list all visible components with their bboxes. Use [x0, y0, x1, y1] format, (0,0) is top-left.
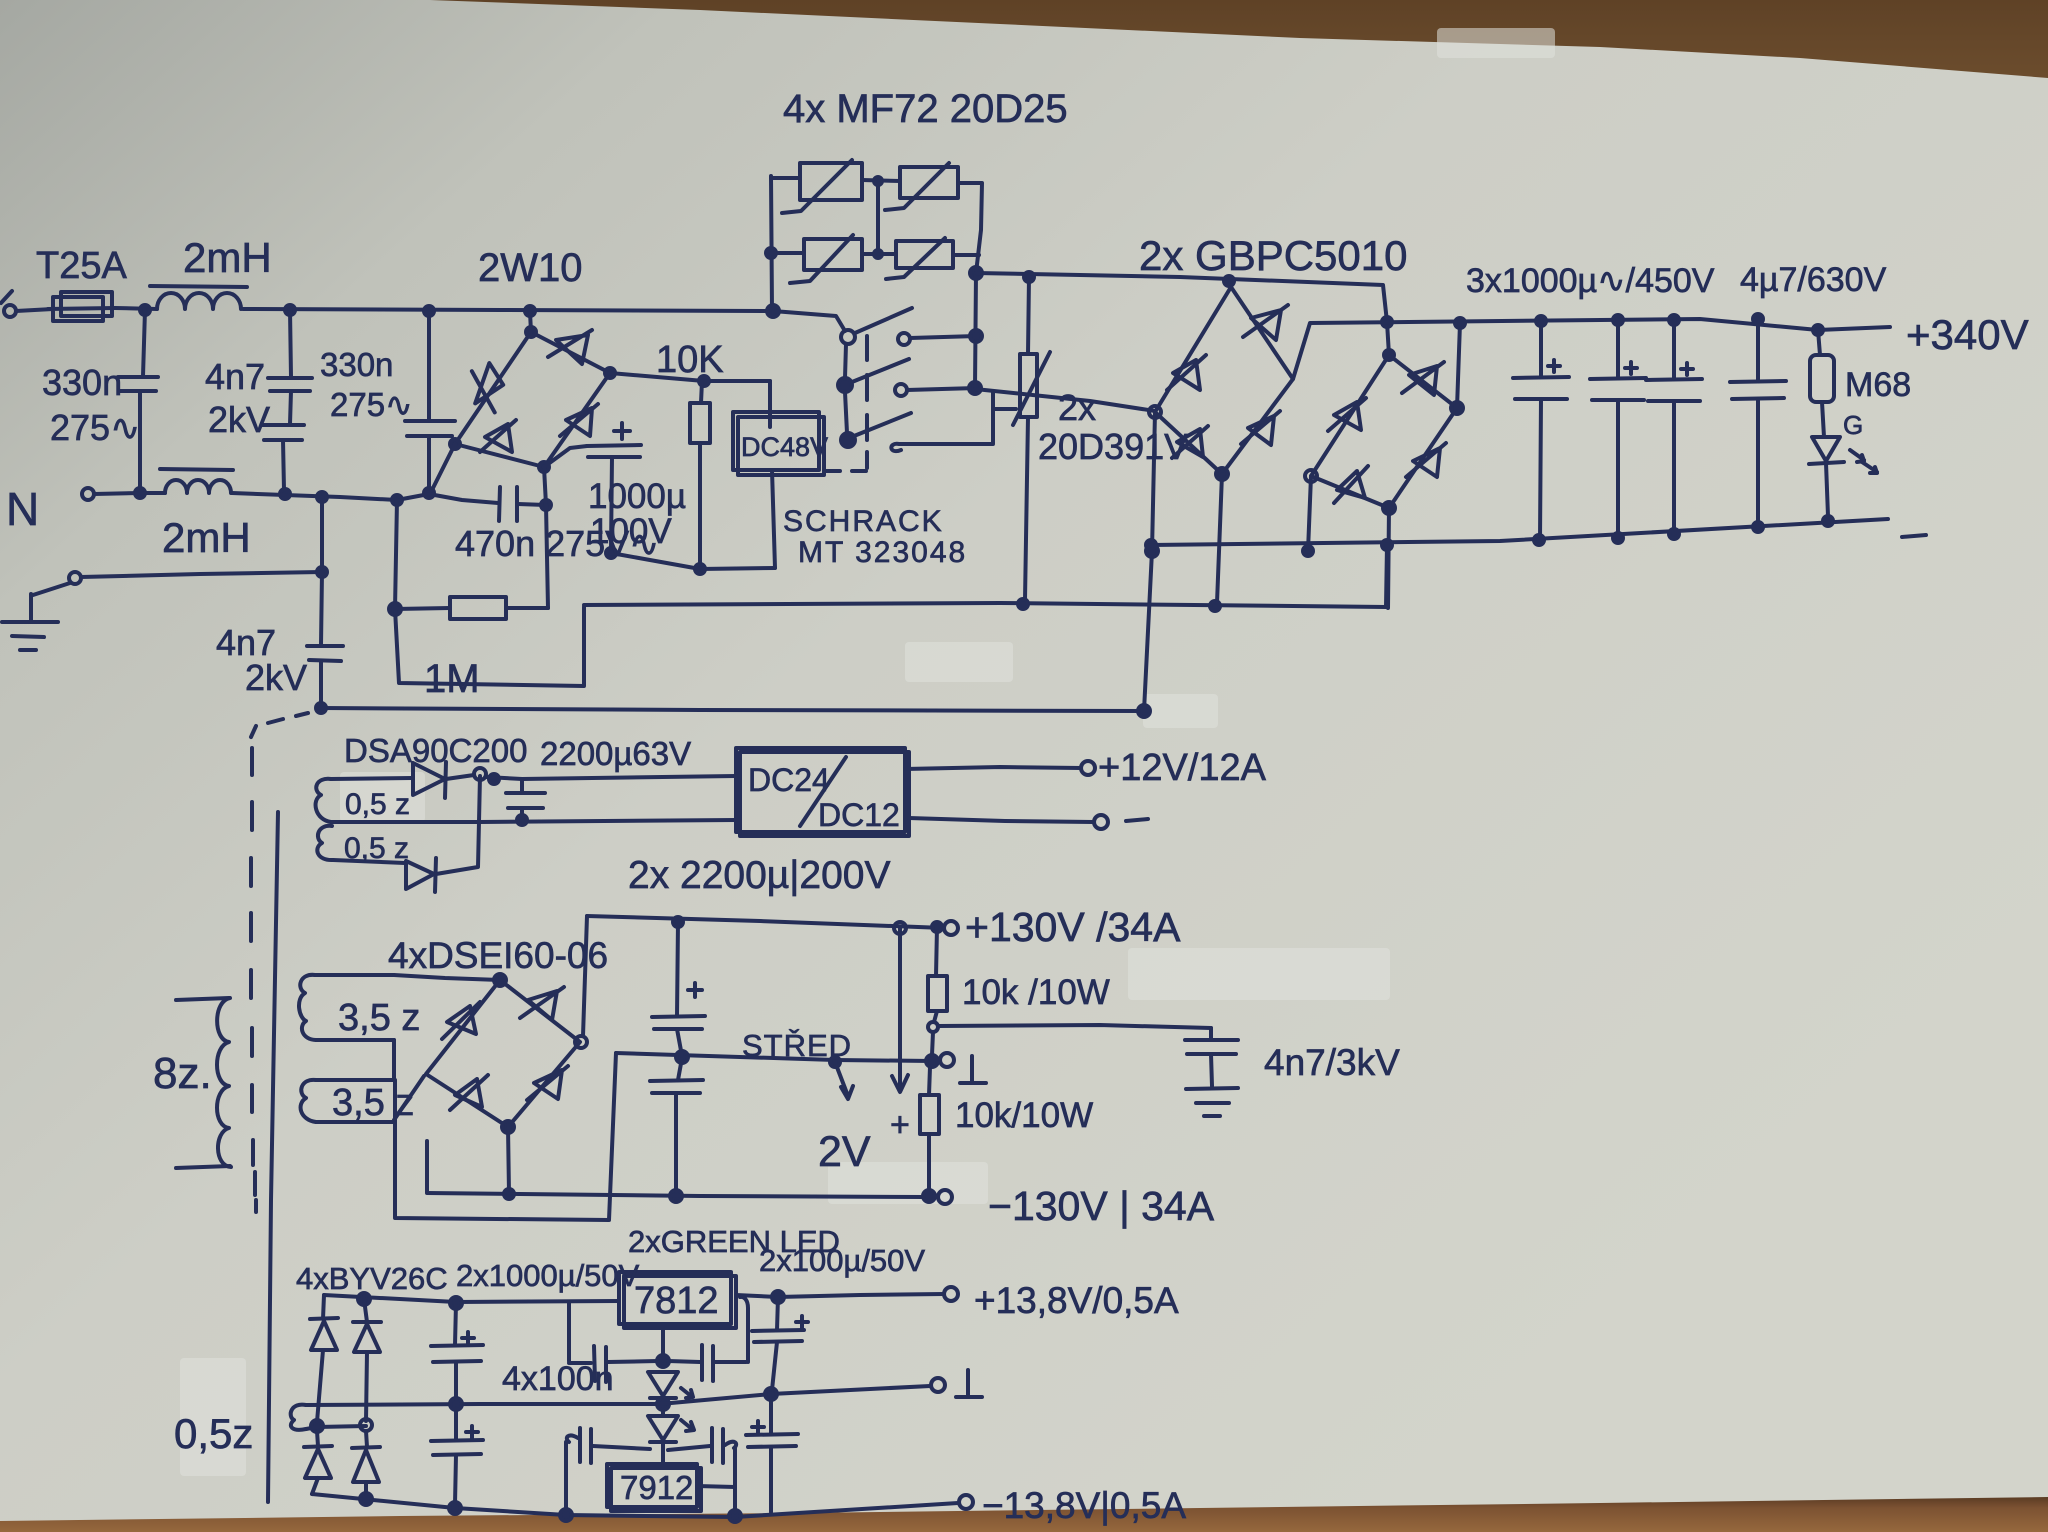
- wire (loop to lower rail): [395, 607, 584, 686]
- winding 0,5z #1: [316, 779, 331, 822]
- converter box DC24/DC12: [736, 748, 905, 832]
- capacitor 2200u 200V (lower): [678, 1058, 682, 1080]
- capacitor 1000u 50V (lower): [454, 1408, 458, 1440]
- svg-text:2x: 2x: [1058, 387, 1096, 428]
- capacitor 1000u 450V #1: [1539, 321, 1543, 377]
- wire (bridge bottom to rail): [508, 1127, 509, 1193]
- capacitor 100u 50V (upper): [777, 1297, 778, 1330]
- svg-text:+340V: +340V: [1906, 311, 2029, 358]
- wire (0V rail): [306, 1404, 660, 1405]
- wire (winding to diode mid nodes): [306, 1426, 366, 1429]
- capacitor 1000u 450V #3: [1672, 320, 1676, 379]
- wire (bridge - to 470n node): [544, 467, 546, 505]
- diode (GBPC1 bottom-right): [1241, 411, 1280, 445]
- svg-text:8z.: 8z.: [153, 1049, 212, 1098]
- svg-text:DC48V: DC48V: [741, 432, 828, 462]
- measuring arrow 2 (2V): [892, 928, 908, 1092]
- svg-text:0,5 z: 0,5 z: [344, 832, 409, 865]
- wire (bridge + output to 10k / relay coil): [610, 373, 770, 381]
- diode (DSEI top-left): [442, 1002, 480, 1039]
- diode DSA90C200 #2: [406, 861, 434, 889]
- svg-text:100V: 100V: [590, 512, 672, 551]
- winding 0,5z (bottom): [291, 1405, 306, 1430]
- regulator box 7912: [607, 1464, 697, 1507]
- diode (GBPC1 bottom-left): [1172, 426, 1208, 458]
- svg-text:2x1000µ/50V: 2x1000µ/50V: [456, 1258, 640, 1293]
- diode (DSEI top-right): [520, 987, 564, 1020]
- wire (winding2 to bridge left corner): [394, 1076, 424, 1120]
- wire: [115, 308, 157, 309]
- wire: [909, 818, 1093, 822]
- wire (GBPC1 AC vertical down to rails): [1144, 412, 1155, 711]
- bridge rectifier GBPC5010 #2: [1311, 355, 1457, 508]
- wire: [768, 381, 772, 427]
- svg-text:4xDSEI60-06: 4xDSEI60-06: [388, 935, 608, 976]
- svg-text:1M: 1M: [424, 657, 480, 701]
- terminal +13,8V: [944, 1287, 958, 1301]
- wire (7912 out): [697, 1486, 735, 1487]
- wire (1M return path): [395, 500, 397, 609]
- svg-text:7812: 7812: [634, 1280, 719, 1322]
- wire (PE line): [81, 572, 322, 577]
- varistor 20D391: [1028, 277, 1029, 354]
- wire (STRED center line): [616, 1053, 932, 1061]
- svg-text:4n7: 4n7: [205, 356, 265, 397]
- measuring arrow 1: [835, 1062, 853, 1099]
- wire (relay output AC wire to bridges): [976, 273, 1389, 355]
- capacitor 1000u 100V: [544, 446, 587, 467]
- relay common pole 2: [838, 378, 852, 392]
- svg-text:DSA90C200: DSA90C200: [344, 732, 527, 769]
- bridge rectifier GBPC5010 #1: [1155, 287, 1293, 474]
- wire (varistor right vertical): [958, 183, 982, 273]
- svg-text:4µ7/630V: 4µ7/630V: [1740, 261, 1887, 299]
- diode (DSEI bottom-right): [527, 1066, 568, 1100]
- inductor L2 2mH: [165, 480, 231, 493]
- varistor MF72 #1: [771, 176, 800, 180]
- node (junction phase / 330n): [140, 305, 150, 315]
- winding 8z: [217, 998, 231, 1167]
- diode (2W10 bottom-left): [480, 420, 516, 452]
- varistor MF72 #3: [771, 251, 804, 255]
- svg-text:2200µ63V: 2200µ63V: [540, 735, 691, 772]
- regulator box 7812: [619, 1272, 731, 1324]
- diode (GBPC2 bottom-right): [1406, 443, 1446, 477]
- winding 3,5z #1: [299, 975, 316, 1040]
- svg-text:10k/10W: 10k/10W: [955, 1096, 1093, 1135]
- relay common pole 1: [841, 330, 855, 344]
- relay coil box DC48V: [733, 412, 819, 470]
- relay actuator dashed link: [824, 336, 867, 471]
- diode DSA90C200 #1: [413, 763, 445, 795]
- svg-text:0,5z: 0,5z: [174, 1410, 253, 1457]
- svg-text:4n7/3kV: 4n7/3kV: [1264, 1042, 1400, 1083]
- svg-text:SCHRACK: SCHRACK: [783, 505, 944, 538]
- LED G (indicator): [1812, 437, 1840, 461]
- varistor MF72 #2: [862, 180, 900, 181]
- relay right rail: [975, 273, 976, 388]
- wire (12V positive line): [486, 776, 736, 779]
- svg-text:+: +: [890, 1106, 910, 1144]
- capacitor 4n7 2kV (lower Y-cap): [317, 492, 327, 502]
- wire (GBPC2 left corner to bottom rail): [1308, 476, 1311, 551]
- wire (-13,8 bottom rail): [312, 1494, 958, 1517]
- diode BYV26C #2: [364, 1299, 367, 1322]
- wire (center tap line): [331, 820, 736, 822]
- wire (left vertical to DSEI bridge): [583, 916, 587, 1036]
- wire (commons vertical): [845, 344, 847, 433]
- diode (GBPC1 top-left): [1167, 355, 1206, 390]
- terminal PE: [69, 572, 81, 584]
- svg-text:3,5 z: 3,5 z: [332, 1082, 414, 1124]
- wire (phase line to varistor block): [243, 309, 773, 311]
- svg-text:G: G: [1843, 410, 1863, 440]
- node: [311, 1420, 323, 1432]
- varistor block 4x MF72 20D25 : left vertical: [771, 176, 772, 311]
- svg-text:330n: 330n: [42, 362, 122, 403]
- svg-text:DC24: DC24: [748, 762, 830, 798]
- diode (2W10 top-right): [548, 330, 592, 364]
- svg-text:10k /10W: 10k /10W: [962, 973, 1110, 1012]
- resistor 10K: [699, 376, 709, 386]
- diode (GBPC2 top-right): [1402, 362, 1444, 395]
- svg-text:3x1000µ∿/450V: 3x1000µ∿/450V: [1466, 262, 1715, 300]
- transformer core line (solid): [268, 812, 278, 1502]
- winding 3,5z #2: [301, 1080, 316, 1122]
- svg-text:4x100n: 4x100n: [502, 1360, 614, 1398]
- capacitor 100n #3: [578, 1428, 582, 1462]
- relay fixed contact 3 (hook): [891, 391, 993, 451]
- svg-text:2V: 2V: [818, 1128, 871, 1176]
- wire (dashed transformer boundary): [251, 713, 308, 1212]
- wire (bridge AC to N junction): [432, 444, 455, 490]
- capacitor 4n7 2kV (upper): [290, 310, 291, 377]
- wire: [736, 1294, 944, 1297]
- capacitor 2200u 200V (upper): [677, 922, 678, 1016]
- svg-text:T25A: T25A: [36, 245, 127, 287]
- wire (to bridge top): [394, 975, 500, 980]
- svg-text:10K: 10K: [656, 339, 724, 381]
- terminal N (neutral input): [82, 488, 94, 500]
- resistor 10k/10W #2: [929, 1067, 930, 1095]
- wire (to 4n7 3kV): [938, 1025, 1211, 1028]
- svg-text:M68: M68: [1845, 366, 1911, 404]
- svg-text:20D391V: 20D391V: [1038, 426, 1188, 467]
- capacitor 4n7 3kV: [1209, 1028, 1213, 1039]
- wire (minus bottom rail): [1151, 519, 1888, 545]
- svg-text:2x100µ/50V: 2x100µ/50V: [759, 1243, 925, 1278]
- capacitor 2200u 63V: [520, 779, 524, 793]
- terminal STRED: [940, 1053, 954, 1067]
- wire (+340V top rail): [1293, 319, 1890, 379]
- resistor 10k/10W #1: [936, 927, 937, 976]
- fuse T25A: [53, 297, 103, 321]
- diode (GBPC2 top-left): [1328, 398, 1366, 431]
- svg-text:N: N: [6, 483, 39, 535]
- correction tape patches: [180, 28, 1555, 1476]
- svg-text:DC12: DC12: [818, 797, 900, 833]
- LED green #1: [648, 1372, 678, 1396]
- capacitor 470n 275V (series): [499, 487, 500, 521]
- wire (GBPC1 minus vertical): [1217, 474, 1222, 603]
- resistor 1M: [395, 608, 450, 609]
- svg-text:2W10: 2W10: [478, 246, 583, 290]
- svg-text:2mH: 2mH: [183, 234, 272, 281]
- relay fixed contact 2: [895, 384, 907, 396]
- wire: [932, 1032, 933, 1055]
- svg-text:1000µ: 1000µ: [588, 477, 686, 516]
- wire: [905, 767, 1081, 769]
- node: [285, 305, 295, 315]
- node: [474, 768, 486, 780]
- wire (varistor mid vertical): [876, 180, 880, 255]
- wire (GBPC2 bottom corner down): [1388, 508, 1389, 608]
- wire (+130V top rail): [587, 916, 944, 928]
- diode (2W10 top-left): [470, 362, 505, 413]
- capacitor 1000u 50V (upper): [455, 1303, 456, 1345]
- bridge rectifier 2W10: [455, 332, 610, 467]
- svg-text:2kV: 2kV: [245, 657, 307, 698]
- wire: [94, 493, 165, 494]
- relay fixed contact 1: [898, 333, 910, 345]
- diode BYV26C #3: [317, 1431, 318, 1446]
- capacitor 100u 50V (lower): [769, 1398, 773, 1434]
- resistor M68: [1818, 330, 1820, 355]
- LED green #2: [661, 1410, 665, 1415]
- inductor L1 2mH: [157, 293, 241, 309]
- svg-text:3,5 z: 3,5 z: [338, 997, 420, 1039]
- terminal +12V: [1081, 761, 1095, 775]
- diode (GBPC1 top-right): [1243, 305, 1288, 340]
- wire (neutral line): [232, 493, 498, 503]
- terminal 0V: [931, 1378, 945, 1392]
- svg-text:2kV: 2kV: [208, 399, 270, 440]
- svg-text:7912: 7912: [620, 1469, 693, 1506]
- capacitor 4u7 630V: [1756, 319, 1760, 381]
- diode BYV26C #1: [323, 1295, 324, 1319]
- capacitor 100n #1: [567, 1302, 571, 1361]
- node: [657, 1355, 669, 1367]
- wire (center tap to STRED): [395, 1053, 616, 1220]
- wire (stub): [425, 1141, 429, 1192]
- node: [392, 495, 402, 505]
- ground: [33, 583, 70, 595]
- 13.8V top rail: [324, 1295, 619, 1302]
- node: [424, 306, 434, 316]
- relay arm 3: [854, 413, 911, 436]
- svg-text:+130V /34A: +130V /34A: [965, 904, 1181, 950]
- terminal -13,8V: [959, 1495, 973, 1509]
- diode (2W10 bottom-right): [560, 404, 598, 436]
- svg-text:2mH: 2mH: [162, 514, 251, 561]
- svg-text:+13,8V/0,5A: +13,8V/0,5A: [974, 1280, 1179, 1321]
- bridge rectifier 4x DSEI60-06: [426, 980, 580, 1127]
- capacitor 1000u 450V #2: [1616, 320, 1620, 378]
- svg-text:2x GBPC5010: 2x GBPC5010: [1139, 232, 1408, 279]
- terminal -12V: [1094, 815, 1108, 829]
- wire (relay coil minus rail): [611, 553, 775, 569]
- ground symbol (STRED terminal): [960, 1056, 986, 1083]
- relay common pole 3: [841, 433, 855, 447]
- svg-text:STŘED: STŘED: [742, 1028, 852, 1063]
- svg-text:2x 2200µ|200V: 2x 2200µ|200V: [628, 854, 890, 897]
- svg-text:275∿: 275∿: [330, 386, 413, 423]
- svg-text:0,5 z: 0,5 z: [345, 788, 410, 821]
- wire (-130V bottom rail): [427, 1193, 924, 1197]
- wire (0V rail right part): [660, 1386, 930, 1404]
- svg-text:4x MF72 20D25: 4x MF72 20D25: [783, 87, 1068, 131]
- wire (windings center join): [392, 1040, 396, 1080]
- wire (long bottom rail of primary section): [321, 708, 1144, 711]
- svg-text:MT 323048: MT 323048: [798, 536, 967, 569]
- relay contacts: feed wire: [773, 311, 845, 331]
- svg-text:330n: 330n: [320, 346, 393, 383]
- capacitor 330n 275V (second X-cap): [427, 311, 431, 420]
- terminal -130V: [923, 1190, 935, 1202]
- svg-text:−13,8V|0,5A: −13,8V|0,5A: [982, 1485, 1186, 1526]
- diode (GBPC2 bottom-left): [1334, 466, 1368, 503]
- minus label mark: [1902, 535, 1926, 537]
- node: [525, 306, 535, 316]
- terminal +130V: [944, 921, 958, 935]
- winding 0,5z #2: [317, 826, 333, 860]
- svg-text:+12V/12A: +12V/12A: [1098, 747, 1267, 789]
- diode BYV26C #4: [366, 1431, 367, 1447]
- wire (GBPC2 right corner up to +340 rail): [1457, 323, 1460, 408]
- varistor MF72 #4: [862, 252, 896, 256]
- wire (rail at y604 to bridges): [584, 545, 1387, 607]
- ground (4n7 3kV): [1186, 1088, 1238, 1089]
- relay arm 1: [855, 308, 912, 333]
- wire: [546, 505, 548, 608]
- diode (DSEI bottom-left): [450, 1075, 488, 1110]
- svg-text:4xBYV26C: 4xBYV26C: [296, 1261, 448, 1296]
- capacitor 330n 275V (first X-cap): [143, 310, 145, 376]
- relay arm 2: [852, 359, 909, 382]
- svg-text:275∿: 275∿: [50, 407, 140, 448]
- capacitor 100n #2: [668, 1361, 700, 1362]
- terminal L (phase input): [4, 305, 16, 317]
- ground symbol (0V terminal): [956, 1370, 982, 1397]
- capacitor 100n #4: [710, 1428, 714, 1462]
- svg-text:−130V | 34A: −130V | 34A: [988, 1183, 1215, 1229]
- wire: [16, 309, 53, 311]
- wire (relay row2 to GBPC AC input): [975, 389, 1155, 411]
- wire: [772, 470, 775, 568]
- wire (7812 output to ground node): [661, 1324, 665, 1361]
